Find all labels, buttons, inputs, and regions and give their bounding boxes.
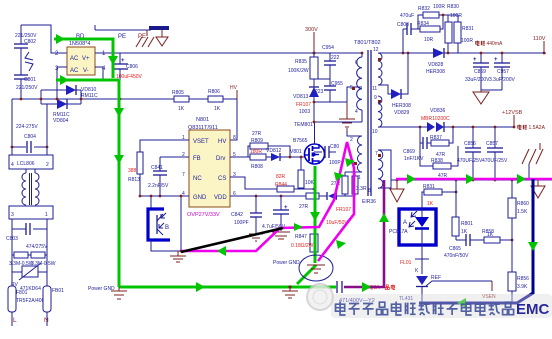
svg-text:R808: R808 bbox=[251, 164, 263, 170]
svg-text:V+: V+ bbox=[82, 56, 90, 62]
svg-text:VD828: VD828 bbox=[428, 62, 444, 68]
resistor R844 82R CS bbox=[230, 174, 314, 192]
svg-text:12: 12 bbox=[373, 47, 379, 53]
svg-text:R844: R844 bbox=[275, 182, 287, 188]
resistor R813 bbox=[128, 152, 143, 196]
svg-text:224-275V: 224-275V bbox=[16, 124, 38, 130]
svg-text:R809: R809 bbox=[251, 138, 263, 144]
svg-text:R813: R813 bbox=[128, 177, 140, 183]
svg-text:C856: C856 bbox=[464, 141, 476, 147]
svg-text:FR107: FR107 bbox=[296, 102, 311, 108]
wire 12V return bbox=[378, 150, 552, 188]
resistor R860 bbox=[508, 180, 529, 240]
svg-text:10K: 10K bbox=[305, 180, 315, 186]
svg-text:R832: R832 bbox=[418, 6, 430, 12]
wire REF bbox=[426, 275, 492, 286]
common-mode choke LCL806 bbox=[9, 147, 53, 219]
svg-text:300V: 300V bbox=[305, 27, 318, 33]
svg-text:R801: R801 bbox=[461, 221, 473, 227]
resistor R837 bbox=[430, 126, 454, 158]
wire green path bridge bottom bbox=[56, 75, 119, 85]
svg-text:R830: R830 bbox=[447, 4, 459, 10]
svg-text:R831: R831 bbox=[462, 26, 474, 32]
svg-text:8: 8 bbox=[368, 188, 371, 194]
svg-text:1.5K: 1.5K bbox=[517, 209, 528, 215]
svg-text:C801: C801 bbox=[24, 77, 36, 83]
svg-text:OVP27V/33V: OVP27V/33V bbox=[187, 212, 220, 218]
svg-text:100R: 100R bbox=[433, 4, 445, 10]
svg-text:VD812: VD812 bbox=[266, 148, 282, 154]
svg-text:3.9K: 3.9K bbox=[517, 284, 528, 290]
svg-text:C954: C954 bbox=[322, 45, 334, 51]
svg-text:1K: 1K bbox=[487, 232, 494, 238]
svg-text:VD829: VD829 bbox=[394, 110, 410, 116]
svg-text:V-: V- bbox=[83, 68, 89, 74]
chassis ground 12V right bbox=[522, 143, 543, 180]
node +12VSB bbox=[502, 110, 546, 131]
wire pin12 to VD828 bbox=[378, 52, 433, 55]
wire bridge pin1 to bus bbox=[95, 52, 363, 55]
svg-text:C857: C857 bbox=[486, 141, 498, 147]
svg-text:1003: 1003 bbox=[299, 109, 310, 115]
svg-text:C804: C804 bbox=[24, 134, 36, 140]
svg-text:PC817A: PC817A bbox=[389, 229, 408, 235]
svg-text:FB01: FB01 bbox=[52, 288, 64, 294]
wire black layout note bbox=[181, 228, 283, 252]
svg-text:222: 222 bbox=[331, 55, 340, 61]
watermark stamp bbox=[307, 284, 333, 310]
svg-text:100P: 100P bbox=[329, 160, 341, 166]
transformer aux winding 2-1 bbox=[347, 128, 362, 181]
resistor R830 bbox=[445, 4, 462, 54]
svg-text:100PF: 100PF bbox=[234, 220, 249, 226]
node FL01 bbox=[400, 249, 429, 274]
node HV bbox=[230, 85, 238, 140]
svg-text:PE: PE bbox=[118, 34, 126, 40]
diode VD804 RM11C bbox=[41, 99, 81, 124]
wire magenta 12V return bbox=[396, 174, 552, 184]
svg-text:C808: C808 bbox=[397, 22, 409, 28]
svg-text:474/275V: 474/275V bbox=[26, 244, 48, 250]
shunt regulator TL431 bbox=[366, 276, 428, 302]
svg-text:V801: V801 bbox=[290, 149, 302, 155]
wire navy feedback path bbox=[419, 179, 538, 308]
svg-text:HV: HV bbox=[230, 85, 238, 91]
svg-text:R834: R834 bbox=[417, 21, 429, 27]
svg-text:Power GND: Power GND bbox=[273, 260, 300, 266]
resistor R806 bbox=[208, 89, 223, 112]
fuse F801 TR5F2A/400 bbox=[8, 272, 45, 326]
svg-text:L: L bbox=[13, 317, 17, 324]
resistor 27R VDD bbox=[299, 193, 327, 210]
svg-text:EIR36: EIR36 bbox=[362, 199, 376, 205]
wire pin10 bbox=[378, 126, 427, 129]
capacitor C857 bbox=[482, 126, 508, 178]
transformer T801/T802 core bbox=[354, 40, 381, 205]
diode VD813 FR107 bbox=[293, 87, 330, 128]
svg-text:100K/2W: 100K/2W bbox=[288, 68, 309, 74]
svg-text:B: B bbox=[165, 225, 169, 231]
ground opto B bbox=[170, 251, 186, 262]
svg-text:C859: C859 bbox=[474, 69, 486, 75]
svg-text:Power GND: Power GND bbox=[88, 286, 115, 292]
triangle ground 110V bbox=[473, 90, 502, 104]
wire magenta VDD loop bbox=[181, 142, 354, 261]
svg-text:470nF/50V: 470nF/50V bbox=[444, 253, 469, 259]
svg-text:4: 4 bbox=[355, 109, 358, 115]
svg-text:11: 11 bbox=[372, 86, 377, 92]
svg-text:1: 1 bbox=[45, 212, 48, 218]
svg-text:VD813: VD813 bbox=[293, 94, 309, 100]
svg-text:C80: C80 bbox=[330, 144, 339, 150]
diode VD829 HER308 bbox=[378, 53, 411, 116]
svg-text:TEM801: TEM801 bbox=[294, 122, 313, 128]
wire AC top bbox=[21, 25, 67, 53]
svg-text:MBR10200C: MBR10200C bbox=[421, 116, 450, 122]
capacitor Y2 471/400V bbox=[337, 281, 375, 304]
svg-text:C802: C802 bbox=[24, 39, 36, 45]
svg-text:R806: R806 bbox=[208, 89, 220, 95]
svg-text:R856: R856 bbox=[517, 276, 529, 282]
transformer secondary winding 12-11 bbox=[372, 47, 382, 92]
svg-text:1nF/1KV: 1nF/1KV bbox=[404, 156, 424, 162]
svg-text:180R: 180R bbox=[250, 149, 262, 155]
capacitor C805 100P bbox=[314, 144, 341, 166]
svg-text:+: + bbox=[473, 57, 477, 63]
svg-text:1K: 1K bbox=[427, 201, 434, 207]
wire VDD pin6 bbox=[230, 195, 306, 198]
node 110V bbox=[476, 36, 546, 54]
svg-text:NC: NC bbox=[193, 176, 202, 182]
capacitor C842 bbox=[231, 196, 262, 233]
svg-text:Drv: Drv bbox=[216, 156, 225, 162]
svg-text:2: 2 bbox=[46, 162, 49, 168]
svg-text:R860: R860 bbox=[517, 201, 529, 207]
svg-text:N801: N801 bbox=[196, 117, 209, 123]
svg-text:3: 3 bbox=[11, 212, 14, 218]
resistor 27R aux vertical bbox=[331, 172, 355, 196]
svg-text:C869: C869 bbox=[403, 149, 415, 155]
svg-text:GND: GND bbox=[193, 195, 207, 201]
svg-text:HER308: HER308 bbox=[392, 103, 411, 109]
bridge rectifier BD 1N508*4 bbox=[55, 34, 106, 75]
svg-text:FB: FB bbox=[193, 156, 201, 162]
svg-text:1N508*4: 1N508*4 bbox=[69, 41, 90, 47]
ground mid green bbox=[282, 285, 298, 298]
svg-text:C955: C955 bbox=[331, 81, 343, 87]
svg-text:2: 2 bbox=[350, 137, 353, 143]
svg-text:27R: 27R bbox=[299, 204, 309, 210]
svg-text:221/250V: 221/250V bbox=[16, 85, 38, 91]
svg-text:1.5A2A: 1.5A2A bbox=[529, 125, 546, 131]
capacitor C801 bbox=[14, 75, 38, 99]
PE bus bar bbox=[149, 26, 169, 30]
wire gate bbox=[289, 156, 305, 159]
svg-text:100uF450V: 100uF450V bbox=[116, 74, 143, 80]
resistor R801 bbox=[452, 217, 473, 240]
svg-text:HV: HV bbox=[218, 139, 226, 145]
diode VD812 bbox=[266, 148, 290, 161]
node Power GND circle bbox=[273, 255, 333, 281]
transformer primary winding 6-4 bbox=[350, 53, 362, 122]
svg-text:LCL806: LCL806 bbox=[17, 161, 35, 167]
resistor R809 bbox=[250, 131, 290, 157]
svg-text:T801/T802: T801/T802 bbox=[354, 40, 381, 46]
svg-text:10: 10 bbox=[372, 129, 378, 135]
svg-text:REF: REF bbox=[431, 275, 441, 281]
diode FR107 aux bbox=[326, 192, 351, 226]
optocoupler U2 phototransistor B bbox=[148, 195, 182, 253]
svg-text:VD836: VD836 bbox=[430, 108, 446, 114]
resistor 3.3R aux vertical bbox=[345, 172, 367, 196]
wire main AC row bbox=[12, 98, 237, 100]
svg-text:1K: 1K bbox=[178, 106, 185, 112]
capacitor 4.7uF/50V bbox=[262, 196, 289, 231]
svg-text:HER308: HER308 bbox=[426, 69, 445, 75]
wire green vertical main bbox=[114, 80, 124, 287]
triangle ground right bbox=[531, 180, 545, 198]
arrow magenta left bbox=[217, 246, 226, 256]
resistors 3.3M bleeders bbox=[9, 229, 56, 267]
watermark text bbox=[336, 301, 550, 318]
svg-text:440mA: 440mA bbox=[487, 41, 504, 47]
svg-text:470UF/25V: 470UF/25V bbox=[482, 158, 508, 164]
wire green source to ground bbox=[310, 166, 320, 263]
svg-text:6: 6 bbox=[355, 60, 358, 66]
varistor RV 471KD64 bbox=[11, 255, 47, 292]
ground pin5 bbox=[339, 102, 355, 127]
svg-text:100R: 100R bbox=[461, 38, 473, 44]
resistor R808 bbox=[250, 149, 271, 170]
svg-text:C957: C957 bbox=[497, 69, 509, 75]
svg-text:7: 7 bbox=[182, 172, 185, 178]
arrow magenta leg3 bbox=[336, 240, 346, 249]
svg-text:B7565: B7565 bbox=[293, 138, 308, 144]
svg-text:C842: C842 bbox=[231, 212, 243, 218]
capacitor C957 bbox=[489, 52, 516, 90]
svg-text:10R: 10R bbox=[424, 37, 434, 43]
resistor R847 current sense bbox=[291, 234, 318, 262]
transformer secondary winding 7-8 bbox=[368, 150, 383, 194]
svg-text:AC: AC bbox=[70, 56, 79, 62]
capacitor C808 snubber bbox=[397, 13, 420, 53]
ground 4.7uF bbox=[272, 232, 290, 239]
svg-text:FR107: FR107 bbox=[336, 207, 351, 213]
svg-text:82R: 82R bbox=[276, 174, 286, 180]
wire purple Y-cap return bbox=[344, 180, 389, 292]
wire VSET pin1 bbox=[140, 140, 189, 152]
capacitor C802 bbox=[14, 25, 37, 75]
capacitor C869 snubber 12V bbox=[403, 127, 431, 162]
svg-text:VD804: VD804 bbox=[53, 118, 69, 124]
svg-text:C865: C865 bbox=[449, 246, 461, 252]
svg-text:A: A bbox=[403, 220, 407, 226]
svg-text:9: 9 bbox=[374, 95, 377, 101]
svg-text:+12VSB: +12VSB bbox=[502, 110, 523, 116]
capacitor C865 bbox=[444, 234, 484, 259]
op-amp U1 PWM controller N801 bbox=[182, 117, 236, 218]
ground C842 bbox=[249, 234, 263, 241]
svg-text:R831: R831 bbox=[423, 184, 435, 190]
resistor R838 bbox=[420, 143, 458, 179]
wire bridge pin4 bbox=[95, 67, 103, 80]
svg-text:+: + bbox=[121, 58, 125, 64]
node dots AC row bbox=[20, 98, 122, 101]
diode VD828 HER308 bbox=[426, 48, 546, 75]
capacitor C955 bbox=[315, 79, 343, 102]
resistor R831 opto series 1K bbox=[422, 184, 457, 207]
wire GND pin4 bbox=[139, 195, 189, 198]
watermark band bbox=[331, 294, 552, 318]
transistor Q1 MOSFET V801 B7565 bbox=[290, 138, 325, 164]
resistor R858 bbox=[482, 229, 513, 243]
svg-text:1K: 1K bbox=[461, 229, 468, 235]
optocoupler U2 LED A PC817A bbox=[389, 206, 436, 249]
wire source bbox=[313, 166, 315, 234]
svg-text:EMC: EMC bbox=[516, 301, 550, 318]
resistor 10K gate bbox=[298, 156, 315, 191]
diode VD810 RM11C bbox=[41, 85, 98, 104]
capacitor C954 bbox=[314, 45, 340, 79]
svg-text:3.3R: 3.3R bbox=[356, 186, 367, 192]
svg-text:N: N bbox=[44, 317, 49, 324]
svg-text:PE: PE bbox=[138, 34, 146, 40]
svg-text:8: 8 bbox=[233, 135, 236, 141]
wire 12V to R801 bbox=[455, 180, 457, 217]
ground PowerGND left bbox=[88, 286, 127, 299]
capacitor C806 bbox=[112, 53, 143, 99]
svg-text:0.18Ω/2W: 0.18Ω/2W bbox=[291, 243, 314, 249]
capacitor C803 bbox=[6, 219, 48, 250]
earth triangle PE bbox=[156, 30, 168, 46]
svg-text:3.3uF/200V: 3.3uF/200V bbox=[489, 77, 516, 83]
svg-text:R837: R837 bbox=[430, 135, 442, 141]
svg-text:4: 4 bbox=[11, 162, 14, 168]
svg-text:R838: R838 bbox=[431, 158, 443, 164]
diode VD836 MBR10200C bbox=[421, 108, 514, 132]
wire Drv pin5 bbox=[230, 146, 250, 157]
svg-text:R835: R835 bbox=[295, 59, 307, 65]
svg-text:7: 7 bbox=[375, 151, 378, 157]
svg-text:1: 1 bbox=[358, 175, 361, 181]
wire bridge pin3 bbox=[57, 67, 67, 99]
wire PE bbox=[95, 25, 151, 30]
chassis ground PE bbox=[136, 30, 154, 47]
capacitor C856 bbox=[457, 126, 483, 178]
svg-text:VSET: VSET bbox=[193, 139, 209, 145]
wire green path bridge top bbox=[54, 34, 118, 78]
wire green bottom PowerGND bbox=[119, 265, 336, 292]
svg-text:F801: F801 bbox=[16, 290, 28, 296]
resistor R856 bbox=[508, 240, 529, 302]
transformer secondary winding 9-10 bbox=[372, 95, 382, 135]
resistor R835 bbox=[288, 53, 318, 87]
capacitor C859 bbox=[465, 52, 490, 90]
svg-text:C806: C806 bbox=[126, 64, 138, 70]
resistor R832 bbox=[418, 4, 458, 29]
svg-text:33uF/200V: 33uF/200V bbox=[465, 77, 490, 83]
svg-text:+: + bbox=[494, 57, 498, 63]
svg-text:R805: R805 bbox=[172, 90, 184, 96]
wire drain bbox=[314, 122, 316, 144]
svg-text:Q8311T/911: Q8311T/911 bbox=[188, 125, 218, 131]
svg-text:CS: CS bbox=[218, 176, 226, 182]
capacitor C841 bbox=[148, 157, 189, 196]
svg-text:2.2nF/5V: 2.2nF/5V bbox=[148, 183, 169, 189]
wire primary pin4 to drain bbox=[313, 121, 362, 124]
svg-text:TR5F2A/400: TR5F2A/400 bbox=[16, 298, 45, 304]
node PE labels bbox=[118, 34, 146, 40]
svg-text:AC: AC bbox=[70, 68, 79, 74]
resistor R805 bbox=[172, 90, 189, 112]
svg-text:388: 388 bbox=[128, 168, 137, 174]
svg-text:RM11C: RM11C bbox=[81, 93, 98, 99]
svg-text:FL01: FL01 bbox=[400, 260, 412, 266]
triangle ground 12V bbox=[390, 181, 404, 202]
svg-text:470uF: 470uF bbox=[400, 13, 414, 19]
svg-text:VDD: VDD bbox=[214, 195, 227, 201]
capacitor C804 bbox=[11, 99, 49, 153]
spark gap FV801 bbox=[25, 52, 33, 71]
wire pin11 bbox=[407, 52, 410, 55]
arrow magenta leg1 bbox=[334, 172, 344, 181]
wire snubber to pin5 ground bbox=[330, 87, 362, 102]
arrow magenta leg2 bbox=[345, 158, 355, 167]
fuse FB01 bbox=[43, 272, 64, 326]
svg-text:470UF/25V: 470UF/25V bbox=[457, 158, 483, 164]
node 300V bbox=[305, 27, 318, 55]
resistor R834 bbox=[417, 15, 443, 43]
svg-text:27R: 27R bbox=[252, 131, 262, 137]
svg-text:1K: 1K bbox=[214, 106, 221, 112]
resistor R831 parallel bbox=[454, 15, 474, 53]
node VSEN bbox=[482, 281, 496, 300]
svg-text:C841: C841 bbox=[151, 165, 163, 171]
svg-text:100R: 100R bbox=[450, 13, 462, 19]
svg-text:R847: R847 bbox=[295, 234, 307, 240]
